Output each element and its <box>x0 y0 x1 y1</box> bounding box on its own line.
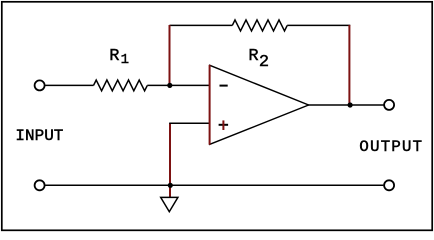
svg-text:2: 2 <box>259 53 269 72</box>
svg-text:OUTPUT: OUTPUT <box>359 138 423 156</box>
svg-text:1: 1 <box>121 52 129 68</box>
svg-text:R: R <box>248 47 258 66</box>
svg-text:R: R <box>109 47 119 66</box>
svg-text:INPUT: INPUT <box>15 127 63 145</box>
